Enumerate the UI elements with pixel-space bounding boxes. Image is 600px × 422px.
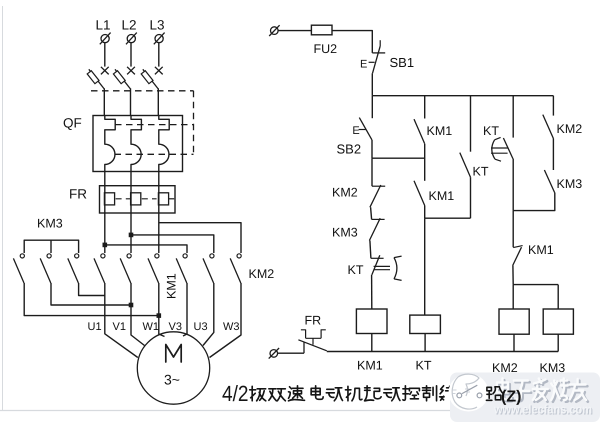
svg-text:E: E xyxy=(352,125,359,137)
svg-text:KT: KT xyxy=(348,263,364,277)
contact KM1 row3 xyxy=(512,211,514,248)
QF contact X pole3 xyxy=(155,67,163,75)
svg-text:U3: U3 xyxy=(194,321,208,333)
node pole2 branch xyxy=(129,233,134,238)
svg-text:KM2: KM2 xyxy=(557,122,583,136)
wire pole1 into QF xyxy=(103,88,105,115)
page rule bottom xyxy=(0,410,600,412)
wire QF-FR pole1 xyxy=(104,172,106,186)
watermark char you xyxy=(571,381,588,402)
FR box xyxy=(100,186,176,213)
wire KM1 row2 bottom xyxy=(424,206,426,219)
coil KM3 xyxy=(543,309,573,334)
coil KM2 xyxy=(499,309,529,334)
wire KM1 row3 bottom xyxy=(512,266,514,285)
svg-text:FU2: FU2 xyxy=(314,42,338,56)
contact KM3 NC left xyxy=(372,218,385,220)
QF inner dashed upper xyxy=(115,124,194,126)
svg-text:QF: QF xyxy=(63,116,82,131)
svg-text:L2: L2 xyxy=(122,18,137,33)
svg-text:FR: FR xyxy=(69,187,87,202)
wire SB2 bottom xyxy=(371,140,373,158)
watermark logo inner marks xyxy=(453,389,471,394)
contact terminal circle c5 xyxy=(127,254,131,258)
wire SB2-KM1 link xyxy=(372,157,425,159)
fuse FU2 xyxy=(311,25,332,35)
title char 0 xyxy=(250,386,266,401)
svg-text:KM2: KM2 xyxy=(249,267,275,281)
svg-text:FR: FR xyxy=(305,314,322,328)
contact blade c7 xyxy=(176,258,187,283)
KT delay arc xyxy=(492,140,495,159)
wire pole2 into QF xyxy=(130,88,132,115)
contact terminal circle c8 xyxy=(210,254,214,258)
title char lu (on watermark) xyxy=(486,387,503,401)
svg-text:E: E xyxy=(360,59,367,71)
title char 4 xyxy=(326,388,342,401)
wire KM1 coil bottom xyxy=(371,334,373,352)
wire L3 down xyxy=(158,43,160,67)
terminal L1 xyxy=(101,35,109,43)
wire FU2 to corner xyxy=(332,31,372,53)
wire V1 lead xyxy=(131,283,145,346)
wire QF-FR pole2 xyxy=(130,172,132,186)
svg-text:KT: KT xyxy=(473,165,489,179)
wire SB2 chain xyxy=(371,158,373,186)
watermark logo circles xyxy=(457,393,462,398)
svg-text:V1: V1 xyxy=(113,321,126,333)
wire branch pole2 xyxy=(131,235,214,253)
title char 8 xyxy=(403,386,420,401)
wire L1 down xyxy=(104,43,106,67)
contact KM2 NC right xyxy=(543,115,554,139)
watermark logo blob xyxy=(449,374,489,412)
wire KT link xyxy=(425,217,471,219)
wire KM2 coil bottom xyxy=(513,334,515,351)
wire QF-FR pole3 xyxy=(158,172,160,186)
QF blade pole3 xyxy=(143,69,158,88)
wire V1 feed xyxy=(130,213,132,253)
contact blade c8 xyxy=(203,258,214,283)
wire branch pole3 xyxy=(159,223,241,253)
wire to FR contact xyxy=(278,352,305,354)
wire pole3 into QF xyxy=(157,88,159,115)
contact terminal circle c6 xyxy=(155,254,159,258)
contact terminal circle c2 xyxy=(47,254,51,258)
contact KM1 row2 xyxy=(414,181,425,206)
wire to FU2 xyxy=(278,30,311,32)
watermark char dian xyxy=(499,380,513,401)
QF linkage dashed vertical xyxy=(193,91,195,154)
QF element pole3 xyxy=(159,116,169,172)
wire KM3-3 to U1 xyxy=(79,283,105,296)
wire drop SB2 xyxy=(371,96,373,119)
contact KT NO xyxy=(460,153,471,178)
coil KT xyxy=(410,315,441,333)
wire drop KT NO xyxy=(470,96,472,152)
svg-text:SB2: SB2 xyxy=(337,142,362,157)
wire W1 lead xyxy=(159,283,165,337)
control bus xyxy=(372,95,553,97)
wire branch pole1 xyxy=(105,245,187,253)
title char 6 xyxy=(365,386,382,401)
contact blade c4 xyxy=(94,258,105,283)
wire U1 feed xyxy=(104,213,106,253)
contact blade c1 xyxy=(13,258,24,283)
title char 5 xyxy=(345,386,362,401)
svg-text:KM1: KM1 xyxy=(427,124,453,138)
FR heater pole2 xyxy=(130,186,132,213)
wire U1 lead xyxy=(105,283,138,358)
title char 1 xyxy=(269,389,286,401)
wire KT to KM1 coil xyxy=(371,275,373,309)
bottom bus xyxy=(327,351,558,353)
KM3 shorting bus xyxy=(24,240,78,253)
control terminal bottom xyxy=(270,350,278,358)
contact blade c3 xyxy=(68,258,79,283)
terminal L2 xyxy=(127,35,135,43)
title char 3 xyxy=(311,386,323,400)
wire drop KM2 NC xyxy=(552,96,554,116)
wire KM1 row1 bottom xyxy=(424,144,426,181)
svg-text:KM1: KM1 xyxy=(528,243,554,257)
svg-text:(Z): (Z) xyxy=(501,389,521,406)
contact KM1 row1 xyxy=(414,119,425,144)
watermark char shao xyxy=(553,380,570,402)
page rule left xyxy=(2,6,4,410)
wire coil split xyxy=(513,285,558,309)
svg-text:KM3: KM3 xyxy=(332,226,358,240)
svg-text:W1: W1 xyxy=(143,321,160,333)
svg-text:KM1: KM1 xyxy=(357,359,383,373)
wire drop KM1 row1 xyxy=(424,96,426,119)
QF element pole2 xyxy=(131,116,141,172)
contact terminal circle c9 xyxy=(237,254,241,258)
svg-text:3~: 3~ xyxy=(164,372,180,388)
wire SB1 to bus xyxy=(371,73,373,95)
wire KM2-KM3 right xyxy=(552,139,554,171)
title char 2 xyxy=(289,386,305,401)
svg-text:W3: W3 xyxy=(223,321,240,333)
contact KT delayed left xyxy=(371,257,384,259)
QF inner dashed lower xyxy=(115,153,194,155)
label M xyxy=(166,345,181,363)
wire drop KT delayed xyxy=(512,96,514,138)
wire KT coil bottom xyxy=(424,334,426,352)
svg-text:4/2: 4/2 xyxy=(222,381,249,406)
wire V3 lead xyxy=(183,283,187,336)
contact blade c6 xyxy=(148,258,159,283)
terminal L3 xyxy=(155,35,163,43)
svg-text:SB1: SB1 xyxy=(390,55,415,70)
contact KT delayed blade xyxy=(503,138,513,159)
svg-text:L3: L3 xyxy=(150,18,165,33)
watermark char zi xyxy=(515,382,532,401)
pushbutton SB2 xyxy=(359,118,372,140)
contact terminal circle c7 xyxy=(183,254,187,258)
contact blade c9 xyxy=(230,258,241,283)
svg-text:KM2: KM2 xyxy=(332,186,358,200)
wire KT NO bottom xyxy=(470,177,472,218)
motor M circle xyxy=(137,332,209,404)
FR linkage dashes xyxy=(116,198,130,200)
pushbutton SB1 xyxy=(379,40,381,46)
QF element pole1 xyxy=(105,116,115,172)
node V1 star xyxy=(129,303,134,308)
wire to KT coil xyxy=(424,218,426,315)
wire KM3 coil bottom xyxy=(557,334,559,351)
contact KM3 NC right xyxy=(544,170,554,193)
contact KM2 NC left xyxy=(372,185,385,187)
watermark box xyxy=(450,373,600,422)
title char xian (under logo) xyxy=(440,386,457,401)
node W1 star xyxy=(157,313,162,318)
label KM1 rotated xyxy=(165,273,179,299)
control terminal top xyxy=(271,27,279,35)
wire U3 lead xyxy=(203,283,214,346)
QF contact X pole2 xyxy=(127,67,135,75)
contact blade c2 xyxy=(40,258,51,283)
node pole1 branch xyxy=(103,243,108,248)
svg-text:KT: KT xyxy=(416,359,432,373)
svg-text:KM3: KM3 xyxy=(37,217,63,231)
contact terminal circle c3 xyxy=(75,254,79,258)
QF blade pole1 xyxy=(89,69,104,88)
svg-text:U1: U1 xyxy=(88,321,102,333)
QF linkage dashed xyxy=(91,90,194,92)
title char 7 xyxy=(384,388,400,401)
QF box xyxy=(93,116,183,172)
contact terminal circle c4 xyxy=(101,254,105,258)
wire KM3-KT left xyxy=(370,241,371,259)
wire KT delayed bottom xyxy=(512,159,514,211)
svg-text:KT: KT xyxy=(483,124,499,138)
svg-text:KM1: KM1 xyxy=(165,273,179,299)
watermark char fa xyxy=(535,380,550,402)
FR heater pole1 xyxy=(104,186,106,213)
wire L2 down xyxy=(130,43,132,67)
contact blade c5 xyxy=(120,258,131,283)
wire KM3-1 to W1 xyxy=(24,283,159,316)
wire W3 lead xyxy=(210,283,242,358)
wire KM3-2 to V1 xyxy=(51,283,131,305)
QF blade pole2 xyxy=(115,69,130,88)
wire KM3 bottom right xyxy=(513,193,555,211)
svg-text:KM3: KM3 xyxy=(557,177,583,191)
title char 9 xyxy=(423,386,437,401)
FR heater pole3 xyxy=(158,186,160,213)
contact FR xyxy=(303,342,305,353)
coil KM1 xyxy=(356,309,387,334)
svg-text:L1: L1 xyxy=(96,18,111,33)
contact terminal circle c1 xyxy=(20,254,24,258)
QF contact X pole1 xyxy=(101,67,109,75)
wire KM2-KM3 left xyxy=(371,207,372,219)
wire W1 feed xyxy=(158,213,160,253)
svg-text:KM1: KM1 xyxy=(429,189,455,203)
